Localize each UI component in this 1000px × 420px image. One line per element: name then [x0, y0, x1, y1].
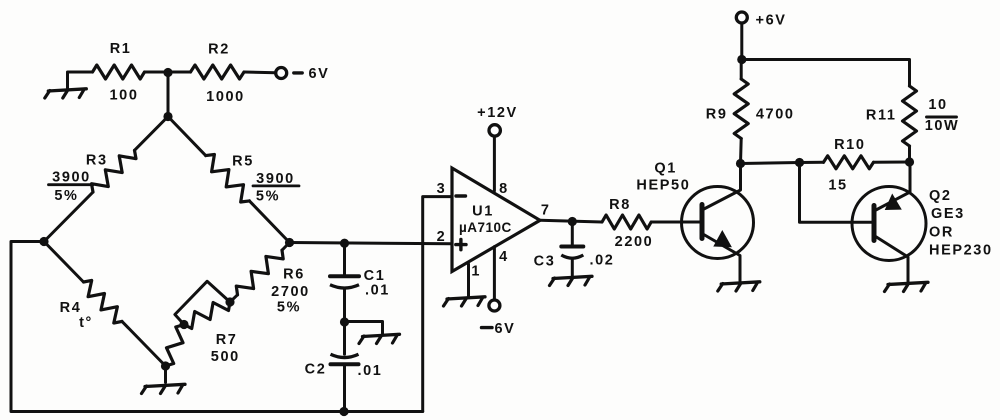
- wire R6 lower: [230, 295, 238, 302]
- svg-text:2200: 2200: [615, 234, 654, 250]
- svg-text:R11: R11: [866, 108, 897, 124]
- svg-text:+6V: +6V: [756, 13, 787, 29]
- resistor R10: [824, 156, 874, 169]
- wire C2 bottom lead: [343, 364, 346, 411]
- svg-text:2700: 2700: [271, 284, 310, 300]
- resistor R9: [734, 79, 748, 139]
- minus sign (pin 3): [456, 194, 466, 197]
- node bridge bottom: [161, 361, 170, 370]
- node bridge top: [163, 112, 172, 121]
- wire C1 top lead: [343, 243, 346, 276]
- node bottom wire / C2: [339, 407, 348, 416]
- svg-text:R10: R10: [834, 137, 865, 153]
- Q1 emitter arrow: [715, 232, 731, 247]
- op-amp U1 triangle: [452, 168, 540, 272]
- ground (left of R1): [48, 89, 86, 91]
- wire R2 to -6V terminal: [244, 71, 276, 75]
- label -6V (top): [294, 71, 302, 74]
- Q2 emitter: [874, 162, 910, 211]
- resistor R1: [93, 65, 145, 79]
- wire Q1 collector to R10: [741, 163, 800, 164]
- terminal +6V: [736, 12, 747, 23]
- svg-text:HEP230: HEP230: [929, 243, 993, 259]
- wire R4 upper: [44, 242, 84, 283]
- svg-text:U1: U1: [472, 204, 494, 220]
- ground (C1/C2 mid): [363, 334, 400, 336]
- svg-text:10W: 10W: [925, 118, 960, 134]
- wire pin 7 to R8: [540, 220, 602, 222]
- node junction R1/R2: [163, 68, 172, 77]
- svg-text:OR: OR: [929, 225, 954, 241]
- resistor R8: [602, 215, 651, 229]
- capacitor C1: [330, 274, 359, 278]
- terminal -6V (top): [276, 68, 287, 79]
- node R10 left junction: [795, 158, 804, 167]
- svg-text:GE3: GE3: [931, 206, 965, 222]
- svg-text:R8: R8: [609, 197, 631, 213]
- wire op-amp - input: [423, 197, 452, 412]
- wire top rail: [742, 60, 910, 87]
- node bridge left: [39, 237, 48, 246]
- resistor R7 lower section: [166, 325, 185, 367]
- terminal -6V (op-amp): [489, 300, 500, 311]
- svg-text:3900: 3900: [52, 170, 91, 186]
- node C1/C2 midpoint: [340, 317, 349, 326]
- svg-text:C2: C2: [305, 361, 327, 377]
- resistor R11: [903, 86, 917, 146]
- wire R4 lower: [122, 321, 166, 366]
- capacitor C3: [561, 245, 583, 249]
- wire R1-R2: [145, 71, 191, 74]
- transistor Q2 circle: [852, 187, 926, 261]
- wire R3 upper: [135, 117, 169, 151]
- node +6V rail: [737, 55, 746, 64]
- wire R5 lower: [249, 201, 289, 243]
- wire bridge bottom to ground: [164, 366, 167, 383]
- svg-text:3: 3: [437, 181, 447, 197]
- svg-text:R4: R4: [60, 300, 82, 316]
- wire R10 left lead: [800, 161, 824, 164]
- ground (Q1 emitter): [721, 282, 760, 284]
- wire R10 right lead: [874, 161, 910, 164]
- svg-text:.01: .01: [365, 283, 390, 299]
- wire R6 upper: [282, 243, 290, 251]
- svg-text:2: 2: [437, 229, 447, 245]
- svg-text:5%: 5%: [256, 189, 280, 205]
- Q1 base bar: [700, 205, 705, 239]
- node R10 right junction: [905, 157, 914, 166]
- svg-text:3900: 3900: [256, 171, 295, 187]
- wire R8 to Q1 base: [651, 221, 702, 224]
- svg-text:7: 7: [541, 202, 551, 218]
- svg-text:15: 15: [828, 178, 847, 194]
- node R7 left tap: [179, 320, 188, 329]
- node C3 tap: [568, 217, 577, 226]
- svg-text:8: 8: [499, 181, 509, 197]
- svg-text:.02: .02: [590, 253, 615, 269]
- wire op-amp + input: [290, 243, 453, 244]
- svg-text:1: 1: [471, 264, 481, 280]
- svg-text:R9: R9: [706, 107, 728, 123]
- pin 8 wire (+12V): [493, 136, 496, 191]
- svg-text:Q2: Q2: [929, 188, 952, 204]
- wire R9 bottom lead: [739, 139, 743, 164]
- svg-text:1000: 1000: [206, 89, 245, 105]
- capacitor C2: [331, 354, 359, 357]
- svg-text:C3: C3: [534, 254, 556, 270]
- ground (pin 1): [447, 297, 485, 299]
- node R7 right tap: [225, 297, 234, 306]
- terminal +12V: [489, 125, 500, 136]
- resistor R3: [92, 150, 137, 192]
- svg-text:500: 500: [211, 349, 240, 365]
- node Q1 collector junction: [736, 159, 745, 168]
- ground (Q2 collector): [888, 282, 928, 284]
- ground (C3): [553, 276, 592, 278]
- Q1 emitter: [702, 234, 740, 282]
- svg-text:HEP50: HEP50: [636, 178, 690, 194]
- wire R11 bottom lead: [908, 146, 911, 162]
- wire C3 bottom lead: [571, 258, 574, 275]
- wire R3 lower: [44, 192, 93, 241]
- wire R7 wiper bypass: [175, 281, 230, 324]
- Q2 base bar: [872, 206, 877, 241]
- svg-text:R5: R5: [232, 154, 254, 170]
- svg-text:R1: R1: [110, 41, 132, 57]
- wire to mid ground: [345, 322, 383, 334]
- svg-text:6V: 6V: [495, 321, 516, 337]
- ground (bridge bottom): [145, 384, 185, 386]
- wire R5 upper: [168, 117, 206, 156]
- resistor R6: [236, 250, 283, 295]
- svg-text:6V: 6V: [309, 66, 330, 82]
- resistor R7 upper section: [184, 302, 230, 329]
- wire bridge top: [167, 73, 170, 117]
- svg-text:+12V: +12V: [477, 105, 518, 121]
- node bridge right: [285, 238, 294, 247]
- svg-text:R6: R6: [283, 267, 305, 283]
- svg-text:t°: t°: [79, 315, 93, 331]
- Q2 emitter arrow: [886, 195, 901, 209]
- pin 1 wire: [467, 264, 470, 296]
- resistor R2: [191, 65, 245, 79]
- svg-text:R3: R3: [86, 153, 108, 169]
- wire C3 top lead: [571, 222, 574, 247]
- svg-text:µA710C: µA710C: [459, 220, 512, 235]
- pin 4 wire (-6V): [493, 247, 496, 300]
- wire bridge left to frame: [11, 242, 423, 412]
- transistor Q1 circle: [682, 187, 754, 259]
- Q1 collector: [702, 164, 741, 211]
- label -6V (op-amp): [482, 326, 493, 329]
- wire C1-C2: [343, 288, 346, 354]
- svg-text:100: 100: [110, 88, 139, 104]
- wire Q2 base path: [800, 163, 875, 223]
- resistor R5: [206, 155, 250, 203]
- svg-text:4700: 4700: [756, 107, 795, 123]
- svg-text:.01: .01: [358, 363, 383, 379]
- svg-text:R7: R7: [216, 332, 238, 348]
- svg-text:4: 4: [499, 249, 509, 265]
- wire R9 top lead: [740, 60, 743, 80]
- svg-text:5%: 5%: [54, 188, 78, 204]
- svg-text:10: 10: [928, 97, 947, 113]
- svg-text:Q1: Q1: [654, 161, 677, 177]
- Q2 collector: [874, 236, 908, 282]
- svg-text:R2: R2: [208, 42, 230, 58]
- wire +6V down: [740, 23, 743, 60]
- resistor R4 (thermistor): [84, 280, 123, 323]
- svg-text:5%: 5%: [277, 300, 301, 316]
- plus sign (pin 2): [456, 243, 466, 246]
- node C1 top: [340, 239, 349, 248]
